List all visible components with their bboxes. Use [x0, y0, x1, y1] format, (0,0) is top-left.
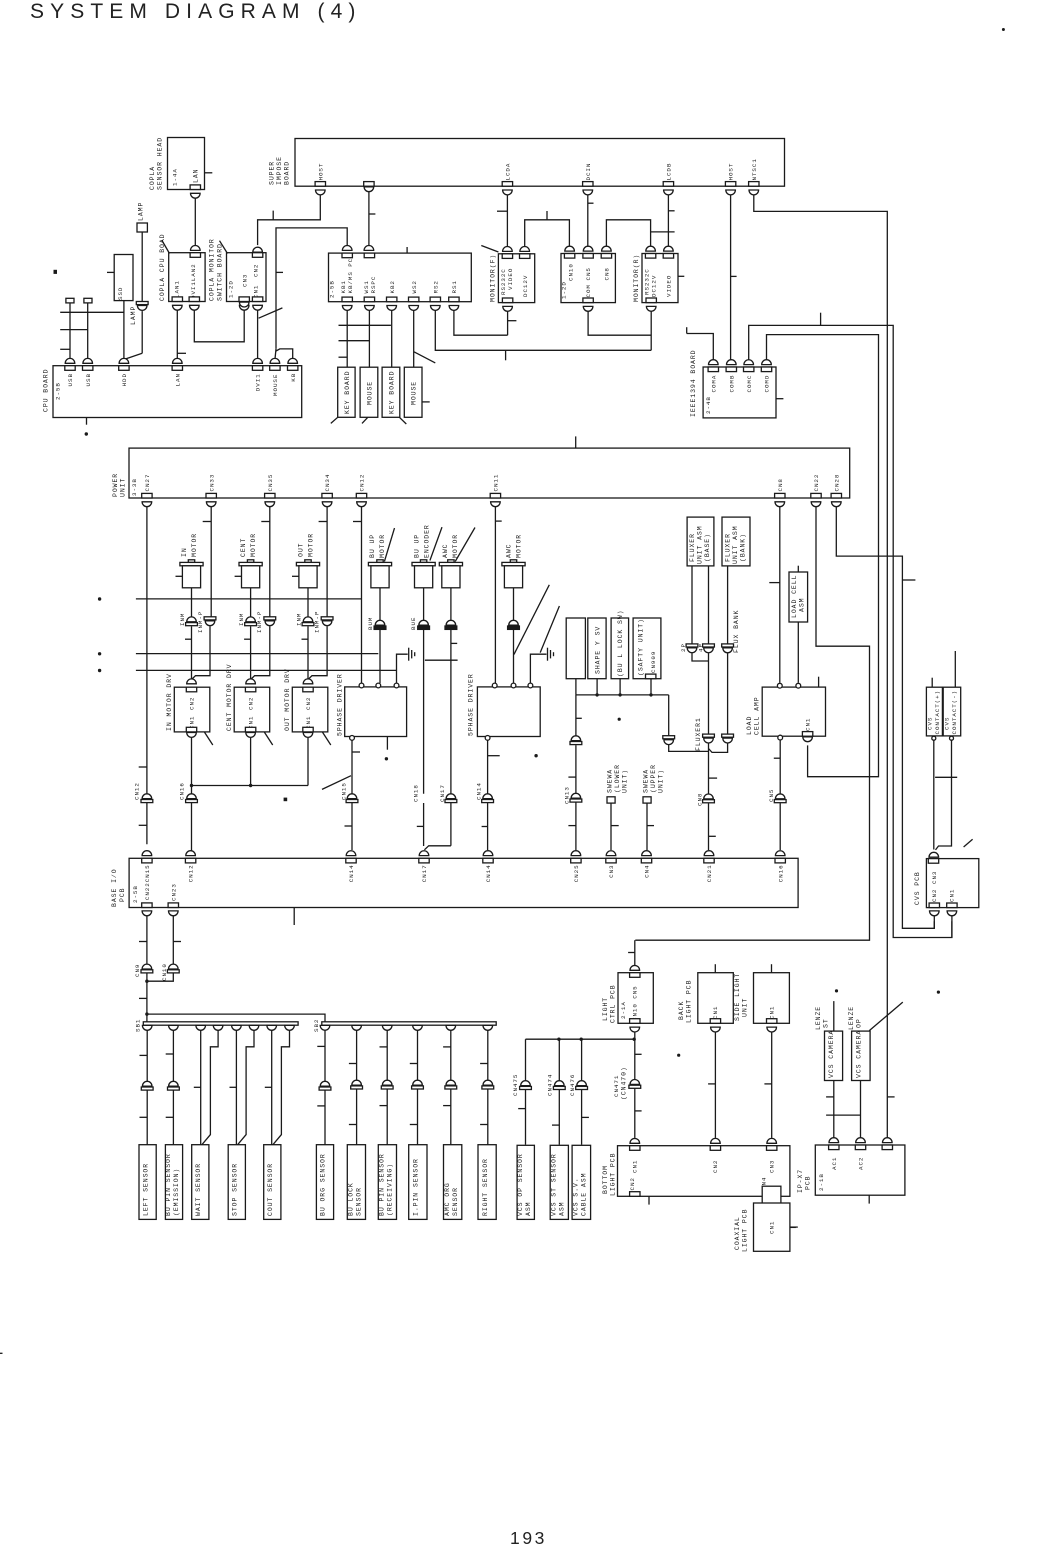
junction: [595, 693, 598, 696]
wire to CN14: [487, 740, 489, 793]
port CN3: [239, 297, 249, 302]
SUPER IMPOSE BOARD box: [295, 139, 785, 187]
tick line: [935, 776, 957, 778]
tab CN2 bottom: [630, 1192, 640, 1197]
box VCS OP SENSOR: [517, 1145, 534, 1219]
svg-text:BOTTOM: BOTTOM: [602, 1165, 609, 1194]
wire OUT CN1 down: [307, 738, 309, 786]
motor BU UP ENCODER: [420, 560, 426, 563]
leader: [162, 241, 170, 254]
BASE I/O tab CN25: [571, 858, 581, 863]
wire 2P: [691, 566, 693, 644]
wire COMC to CVS CN1: [749, 325, 952, 937]
svg-text:FLUXER: FLUXER: [689, 533, 696, 562]
dot: [385, 757, 388, 760]
BASE I/O tab CN16: [775, 858, 785, 863]
dome SB1 x271.7: [267, 1025, 277, 1030]
sensor box I.PIN SENSOR: [409, 1145, 427, 1220]
wire down: [779, 803, 781, 850]
svg-text:CN35: CN35: [267, 474, 274, 492]
mark square: [284, 798, 288, 802]
pair CN474: [555, 1081, 565, 1086]
motor BU UP: [377, 560, 383, 563]
svg-text:2-1B: 2-1B: [818, 1173, 825, 1191]
wire down: [708, 803, 710, 850]
tick: [139, 941, 147, 943]
dot mark: [677, 1054, 680, 1057]
svg-text:VCS CAMERA: VCS CAMERA: [856, 1030, 863, 1078]
svg-text:COPLA CPU BOAD: COPLA CPU BOAD: [159, 234, 166, 302]
svg-text:ENCODER: ENCODER: [423, 524, 430, 558]
leader diagonal MS2: [414, 352, 435, 363]
pair: [413, 1080, 423, 1085]
svg-text:CN475: CN475: [512, 1074, 519, 1096]
stub above -: [954, 651, 956, 687]
svg-text:SENSOR: SENSOR: [356, 1187, 363, 1216]
FLUXER UNIT ASM BASE box: [687, 517, 714, 566]
svg-text:PCB: PCB: [119, 888, 126, 902]
tick: [443, 1046, 451, 1048]
svg-text:KEY BOARD: KEY BOARD: [344, 371, 351, 414]
svg-text:VCS S.V.: VCS S.V.: [572, 1177, 579, 1216]
wire CN1 tail: [951, 914, 953, 938]
leader diagonal: [259, 308, 283, 318]
svg-text:CN22CN15: CN22CN15: [144, 864, 151, 900]
svg-text:CONTACT(+): CONTACT(+): [934, 690, 941, 735]
tick MOUSE2: [422, 401, 430, 403]
wire motor down: [250, 588, 252, 617]
wire + down: [933, 740, 935, 849]
port RS232C bottom: [502, 298, 512, 303]
dome SB x417.5: [413, 1025, 423, 1030]
SIDE LIGHT UNIT box: [754, 973, 790, 1024]
port bottom x413.7: [409, 297, 419, 302]
svg-text:MOUSE: MOUSE: [366, 381, 373, 405]
wire CN11 to driver: [494, 504, 496, 684]
wire BUM: [379, 588, 381, 620]
port DC12V top: [520, 254, 530, 259]
wire to fluxer junction: [669, 745, 709, 752]
svg-text:CN2: CN2: [248, 697, 255, 710]
VCS CAMERA box 1: [825, 1031, 843, 1080]
dome CN21: [704, 851, 714, 856]
stub line 1: [339, 324, 391, 326]
svg-text:COM: COM: [585, 284, 592, 297]
tick top edge: [575, 436, 577, 448]
leader: [264, 732, 273, 745]
wire INM-P elbow: [251, 626, 270, 679]
circle: [492, 683, 497, 688]
SB2 bus bar: [322, 1022, 496, 1025]
svg-text:SSD: SSD: [117, 287, 124, 300]
svg-text:SYSTEM DIAGRAM (4): SYSTEM DIAGRAM (4): [30, 0, 362, 23]
tab KB/MS PC top: [342, 253, 352, 258]
tick: [349, 1124, 357, 1126]
wire BUE: [423, 588, 425, 620]
port DVI1LAN2 bottom: [189, 297, 199, 302]
CPU BOARD port DVI1: [252, 366, 262, 371]
wire B jog: [238, 1030, 254, 1144]
tick: [686, 327, 688, 333]
dome RSPC: [364, 245, 374, 250]
svg-text:BU PIN SENSOR: BU PIN SENSOR: [165, 1153, 172, 1216]
junction: [649, 693, 652, 696]
dome CN3: [929, 852, 939, 857]
svg-text:CN12: CN12: [359, 474, 366, 492]
svg-text:BOARD: BOARD: [284, 161, 291, 185]
tick: [417, 825, 424, 827]
superimpose port LCDA: [502, 182, 512, 187]
dot: [937, 991, 940, 994]
svg-text:USB: USB: [85, 373, 92, 386]
wire to driver: [513, 630, 515, 684]
port CN1: [767, 1019, 777, 1024]
svg-text:DVI1: DVI1: [255, 373, 262, 391]
SSD box: [114, 255, 133, 301]
dome SB x325: [320, 1025, 330, 1030]
pair INM-P: [204, 617, 216, 620]
wire AWC: [450, 588, 452, 620]
svg-text:CN3: CN3: [768, 1160, 775, 1173]
circle: [777, 683, 782, 688]
svg-text:RS232C: RS232C: [500, 268, 507, 295]
svg-text:CN10: CN10: [568, 263, 575, 281]
wire KB/MS PC to mouse-kb: [276, 228, 347, 349]
pair CN15: [347, 794, 357, 799]
motor IN MOTOR: [188, 560, 194, 563]
svg-text:(EMISSION): (EMISSION): [173, 1168, 180, 1216]
svg-text:DC12V: DC12V: [650, 275, 657, 297]
tick: [628, 952, 635, 954]
wire to CN2: [307, 626, 309, 678]
svg-text:3-3B: 3-3B: [131, 478, 138, 496]
MOUSE box 2: [404, 367, 422, 417]
BOTTOM LIGHT PCB box: [618, 1146, 790, 1197]
wire CN2 tail: [933, 914, 935, 929]
svg-text:MOUSE: MOUSE: [272, 374, 279, 396]
KEY BOARD box 2: [382, 367, 400, 417]
USB header square 1: [66, 298, 74, 303]
superimpose port HOST: [315, 182, 325, 187]
wire DCIN: [587, 192, 589, 249]
wire HOST-COMB: [730, 192, 732, 363]
svg-text:LCDB: LCDB: [666, 163, 673, 181]
stub above: [714, 964, 716, 973]
tick: [611, 825, 619, 827]
wire B jog: [273, 1030, 290, 1144]
tick: [139, 766, 147, 768]
leader: [430, 527, 442, 560]
wire COMA: [687, 334, 714, 364]
sensor box WAIT SENSOR: [192, 1145, 209, 1220]
wire IN CN1 down: [191, 738, 193, 851]
blank unit box: [566, 618, 585, 679]
FLUXER UNIT ASM BANK box: [722, 517, 750, 566]
svg-text:MOUSE: MOUSE: [411, 381, 418, 405]
LOAD CELL AMP box: [762, 687, 825, 736]
SHAPE Y SV box: [588, 618, 606, 679]
dome onto DVI1LAN2: [191, 245, 201, 250]
wire lamp lower: [141, 311, 143, 353]
tick: [302, 638, 309, 640]
svg-text:LAN1: LAN1: [173, 280, 180, 298]
dome CN2: [711, 1138, 721, 1143]
port CN5: [583, 254, 593, 259]
tick: [482, 826, 488, 828]
wire CN27 to CN15: [146, 504, 148, 845]
junction: [249, 784, 252, 787]
wire CN10 join: [147, 973, 173, 981]
tick: [546, 211, 548, 220]
tick: [369, 213, 376, 215]
tick line: [425, 659, 458, 661]
pair INM: [246, 617, 256, 622]
svg-text:COMB: COMB: [728, 375, 735, 393]
leader: [455, 528, 475, 562]
wire sensor: [324, 1030, 326, 1144]
svg-text:IN MOTOR DRV: IN MOTOR DRV: [166, 673, 173, 731]
port VIDEO: [663, 254, 673, 259]
svg-text:CN9: CN9: [134, 964, 141, 977]
svg-text:2-4B: 2-4B: [705, 396, 712, 414]
tick: [518, 1108, 525, 1110]
tick: [276, 271, 283, 273]
BASE I/O tab CN17: [419, 858, 429, 863]
pair INM-P: [321, 617, 333, 620]
svg-text:KB/MS PC: KB/MS PC: [347, 258, 354, 294]
svg-text:AC1: AC1: [831, 1157, 838, 1170]
BASE I/O tab CN3: [606, 858, 616, 863]
port bottom x391.7: [387, 297, 397, 302]
svg-text:SENSOR: SENSOR: [452, 1187, 459, 1216]
superimpose port HOST: [725, 182, 735, 187]
wire AWC right: [513, 588, 515, 620]
POWER port CN28: [831, 493, 841, 498]
tick below: [293, 908, 295, 926]
svg-text:CN16: CN16: [179, 782, 186, 800]
svg-text:CN34: CN34: [324, 474, 331, 492]
tick top edge: [406, 247, 408, 253]
svg-text:5PHASE DRIVER: 5PHASE DRIVER: [337, 673, 344, 736]
port CN10: [630, 1019, 640, 1024]
POWER port CN34: [322, 493, 332, 498]
wire CN34: [326, 504, 328, 617]
COPLA SENSOR HEAD box: [168, 138, 205, 190]
wire down: [771, 1029, 773, 1138]
leader: [384, 528, 394, 561]
pair CN5: [775, 794, 785, 799]
tick LAN line: [177, 352, 186, 354]
dot mark: [618, 718, 621, 721]
SAFTY UNIT box: [633, 618, 661, 679]
tick: [552, 1124, 559, 1126]
svg-text:MOTOR: MOTOR: [379, 534, 386, 558]
svg-text:BU LOCK: BU LOCK: [348, 1182, 355, 1216]
leader: [331, 417, 338, 423]
wire to CN15: [351, 740, 353, 793]
junction: [633, 1038, 636, 1041]
wire cross AC1-AC2: [826, 1114, 860, 1116]
tick: [352, 751, 360, 753]
wire CN1 to DVI1: [257, 307, 259, 359]
wire merge: [709, 743, 728, 752]
tick: [887, 1096, 894, 1098]
wire motor down: [191, 588, 193, 617]
svg-text:MOTOR: MOTOR: [515, 534, 522, 558]
dome CN1: [630, 1138, 640, 1143]
wire USB2: [87, 303, 89, 360]
wire CN23 down: [172, 913, 174, 964]
svg-text:UNIT ASM: UNIT ASM: [732, 525, 739, 564]
dome SB x173.4: [169, 1025, 179, 1030]
svg-text:MONITOR(F): MONITOR(F): [489, 254, 496, 302]
MONITOR(R) box: [642, 254, 678, 303]
motor AWC right: [510, 560, 516, 563]
tick: [709, 835, 716, 837]
svg-text:CN3: CN3: [241, 274, 248, 287]
wire NTSC1 long: [754, 192, 888, 1138]
svg-text:CENT MOTOR DRV: CENT MOTOR DRV: [226, 664, 233, 732]
svg-text:POWER: POWER: [112, 473, 119, 497]
tick: [568, 825, 576, 827]
dome CN25: [571, 851, 581, 856]
dome CN1: [246, 733, 256, 738]
svg-text:BACK: BACK: [678, 1001, 685, 1020]
svg-text:(BANK): (BANK): [740, 533, 747, 562]
sensor box AMC ORG: [444, 1145, 462, 1220]
svg-text:LEFT SENSOR: LEFT SENSOR: [142, 1163, 149, 1216]
wire BUE long: [423, 630, 425, 794]
mark square: [54, 270, 58, 274]
wire FLUX BANK: [727, 566, 729, 644]
tick: [173, 941, 181, 943]
tick: [139, 824, 147, 826]
tick: [230, 1086, 237, 1088]
OUT MOTOR DRV box: [292, 687, 328, 732]
dome CN3: [606, 851, 616, 856]
wire CN13 mid: [575, 745, 577, 793]
port AC1: [829, 1145, 839, 1150]
wire MS1: [368, 307, 370, 367]
svg-text:(BU L LOCK SW): (BU L LOCK SW): [617, 610, 624, 678]
wire INM-P elbow: [308, 626, 327, 679]
circle gnd: [528, 683, 533, 688]
SB1 bus bar: [143, 1022, 298, 1025]
LOAD CELL ASM box: [789, 572, 808, 622]
tick: [709, 777, 718, 779]
stub line: [60, 311, 123, 313]
wire sensor: [450, 1030, 452, 1144]
leader: [322, 732, 331, 745]
wire hook to KB dome: [276, 349, 293, 360]
IP-X7 PCB box: [815, 1145, 905, 1195]
junction: [618, 693, 621, 696]
pair INM: [187, 617, 197, 622]
tick: [774, 757, 780, 759]
wire CN12 to driver: [361, 504, 363, 684]
rail 1: [136, 598, 362, 600]
dome SB x356.6: [352, 1025, 362, 1030]
wire B jog: [202, 1030, 218, 1144]
tick: [317, 1045, 325, 1047]
tick: [194, 1086, 201, 1088]
svg-text:ASM: ASM: [799, 598, 806, 612]
svg-text:COMD: COMD: [764, 375, 771, 393]
tick: [647, 825, 654, 827]
stub below: [868, 1195, 870, 1203]
wire CN28 to CVS CN2: [836, 504, 934, 929]
pair BUM: [375, 620, 385, 625]
wire A: [235, 1030, 237, 1144]
svg-text:CN476: CN476: [569, 1074, 576, 1096]
wire CN475: [525, 1039, 527, 1145]
svg-text:SB2: SB2: [313, 1019, 320, 1032]
tick line: [651, 231, 675, 233]
svg-text:CN2: CN2: [931, 889, 938, 902]
wire box1 down: [575, 679, 577, 695]
svg-text:(LOWER: (LOWER: [614, 764, 621, 793]
pair: [571, 736, 581, 741]
pair CN12: [142, 794, 152, 799]
svg-text:DVI1LAN2: DVI1LAN2: [190, 263, 197, 299]
svg-text:CN23: CN23: [170, 883, 177, 901]
svg-text:(BASE): (BASE): [704, 533, 711, 562]
port NTSC: [882, 1145, 892, 1150]
svg-text:CN1: CN1: [949, 889, 956, 902]
svg-text:LIGHT PCB: LIGHT PCB: [685, 980, 692, 1023]
tick: [708, 1083, 715, 1085]
dot: [85, 432, 88, 435]
CPU BOARD port USB: [65, 366, 75, 371]
wire KB2: [391, 307, 393, 367]
nested connector CN4/CN3: [762, 1186, 781, 1212]
tab unnamed: [364, 182, 374, 187]
circle bottom: [778, 735, 783, 740]
svg-text:LENZE: LENZE: [815, 1006, 822, 1030]
svg-text:CN17: CN17: [421, 864, 428, 882]
svg-text:BUE: BUE: [410, 617, 417, 630]
port CN5: [630, 973, 640, 978]
dot: [98, 597, 101, 600]
BASE I/O tab CN14: [346, 858, 356, 863]
POWER port CN8: [775, 493, 785, 498]
svg-text:CN14: CN14: [348, 864, 355, 882]
CENT MOTOR DRV box: [234, 687, 270, 732]
junction: [145, 980, 148, 983]
BACK LIGHT PCB box: [698, 973, 734, 1024]
MONITOR(F) box: [498, 254, 534, 303]
dome CN2: [253, 247, 263, 252]
wire LCDB: [667, 192, 669, 249]
ground: [408, 648, 410, 661]
svg-text:SIDE LIGHT: SIDE LIGHT: [734, 973, 741, 1021]
tab CN3: [767, 1146, 777, 1151]
wire CN909 down: [650, 679, 652, 695]
dome CN22: [142, 911, 152, 916]
svg-text:AC2: AC2: [858, 1157, 865, 1170]
port LAN bottom: [190, 185, 200, 190]
wire SWEWA upper: [646, 803, 648, 850]
dome CN16: [775, 851, 785, 856]
svg-text:IN: IN: [181, 547, 188, 557]
superimpose port NTSC1: [749, 182, 759, 187]
svg-text:INM-P: INM-P: [314, 611, 321, 633]
wire A: [271, 1030, 273, 1144]
svg-text:UNIT: UNIT: [742, 998, 749, 1017]
junction: [580, 1038, 583, 1041]
circle out: [485, 736, 490, 741]
svg-text:WS1: WS1: [363, 280, 370, 293]
